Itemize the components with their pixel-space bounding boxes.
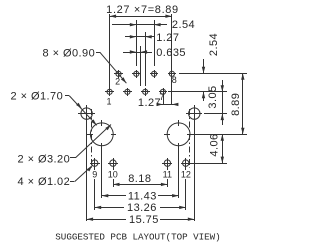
- body outline right (dash-dot): [189, 109, 191, 168]
- pad 1 (hole Ø0.90): [105, 88, 114, 96]
- svg-text:1.27 ×7=8.89: 1.27 ×7=8.89: [106, 4, 179, 16]
- hole 9 (Ø1.02): [90, 158, 100, 168]
- svg-text:2 × Ø3.20: 2 × Ø3.20: [18, 153, 71, 165]
- extension line mounting 1.70 right column: [194, 121, 196, 221]
- svg-text:8: 8: [172, 75, 177, 85]
- mounting hole left (Ø1.70): [78, 105, 95, 122]
- svg-text:2.54: 2.54: [172, 19, 195, 31]
- dimension 0.635 row: [123, 50, 152, 53]
- svg-text:8.89: 8.89: [230, 93, 242, 116]
- svg-text:2.54: 2.54: [208, 33, 220, 56]
- extension line pin1 column: [109, 14, 111, 88]
- svg-text:1.27: 1.27: [156, 32, 179, 44]
- pad 3 (hole Ø0.90): [123, 88, 132, 96]
- dimension 8.18 bottom: [113, 183, 167, 186]
- extension line center column: [140, 46, 142, 86]
- svg-text:4.06: 4.06: [209, 133, 221, 156]
- svg-text:2 × Ø1.70: 2 × Ø1.70: [11, 91, 64, 103]
- dimension 4.06 vertical right: [221, 134, 224, 163]
- mounting hole right (Ø3.20): [164, 120, 193, 146]
- dimension 1.27x7=8.89 top: [110, 15, 172, 18]
- extension line mounting 1.70 row right: [204, 113, 227, 115]
- extension line pin8 row right: [179, 73, 247, 75]
- svg-text:13.26: 13.26: [127, 202, 157, 214]
- extension line pin7 row right: [168, 91, 227, 93]
- extension line pin8 column bottom: [171, 77, 173, 105]
- hole 12 (Ø1.02): [181, 158, 191, 168]
- extension line hole10 column: [113, 166, 115, 187]
- dimension 1.27 row: [125, 35, 154, 38]
- extension line pin7 column bottom: [163, 96, 165, 105]
- dimension 11.43 bottom: [102, 194, 179, 197]
- mounting hole right (Ø1.70): [186, 105, 202, 122]
- pad 4 (hole Ø0.90): [132, 70, 141, 78]
- extension line pin5 column: [145, 32, 147, 86]
- extension line pin4 column: [136, 20, 138, 66]
- leader 2x3.20 to mounting hole: [70, 125, 111, 158]
- svg-text:4 × Ø1.02: 4 × Ø1.02: [18, 176, 71, 188]
- extension line pin8 column top: [171, 14, 173, 71]
- pad 7 (hole Ø0.90): [159, 88, 167, 96]
- leader 8x0.90 to pad 2: [96, 52, 126, 83]
- svg-text:9: 9: [92, 169, 97, 179]
- svg-text:7: 7: [159, 92, 164, 102]
- svg-text:8 × Ø0.90: 8 × Ø0.90: [43, 48, 96, 60]
- extension line pin6 column: [154, 20, 156, 66]
- svg-text:11: 11: [163, 170, 172, 180]
- dimension 8.89 vertical right: [241, 73, 244, 134]
- pad 2 (hole Ø0.90): [114, 70, 123, 78]
- extension line hole12 row right: [191, 163, 227, 165]
- dimension 13.26 bottom: [95, 206, 186, 209]
- extension line mounting 3.20 left column: [101, 143, 103, 198]
- svg-text:1: 1: [106, 96, 111, 106]
- dimension 3.05 vertical right: [221, 80, 224, 125]
- dimension 2.54 top row: [112, 23, 167, 26]
- extension line mounting 3.20 row right: [193, 134, 247, 136]
- extension line hole11 column: [167, 166, 169, 187]
- pad 8 (hole Ø0.90): [168, 70, 176, 78]
- leader 4x1.02 to hole 9: [70, 166, 92, 182]
- extension line mounting 3.20 right column: [178, 143, 180, 198]
- pad 5 (hole Ø0.90): [141, 88, 150, 96]
- leader 2x1.70 to mounting holes: [65, 96, 97, 126]
- svg-text:15.75: 15.75: [129, 214, 159, 226]
- svg-text:10: 10: [108, 170, 118, 180]
- hole 10 (Ø1.02): [108, 158, 118, 168]
- pad 6 (hole Ø0.90): [150, 70, 158, 78]
- extension line mounting 1.70 left column: [86, 121, 88, 221]
- extension line hole12 column: [185, 166, 187, 210]
- body outline left (dash-dot): [91, 109, 93, 168]
- svg-text:12: 12: [181, 170, 191, 180]
- dimension 15.75 bottom: [87, 218, 195, 221]
- svg-text:11.43: 11.43: [128, 190, 157, 202]
- dimension 2.54 vertical right: [202, 59, 205, 101]
- svg-text:8.18: 8.18: [128, 173, 151, 185]
- hole 11 (Ø1.02): [162, 158, 172, 168]
- mounting hole left (Ø3.20): [87, 120, 116, 146]
- svg-text:3.05: 3.05: [207, 85, 219, 108]
- svg-text:1.27: 1.27: [138, 97, 161, 109]
- extension line hole9 column: [94, 166, 96, 210]
- svg-text:0.635: 0.635: [156, 47, 186, 59]
- svg-text:2: 2: [115, 77, 120, 87]
- dimension 1.27 pins 7-8: [157, 103, 179, 106]
- svg-text:SUGGESTED PCB LAYOUT(TOP VIEW): SUGGESTED PCB LAYOUT(TOP VIEW): [55, 231, 220, 242]
